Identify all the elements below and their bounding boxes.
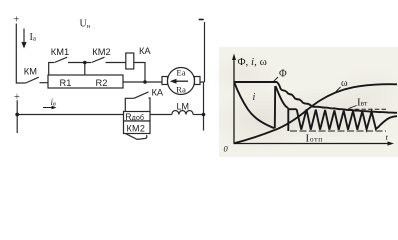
svg-text:КА: КА xyxy=(139,46,151,56)
curve ω speed xyxy=(234,84,397,143)
current arrow Ia xyxy=(23,29,25,43)
node: junction dot armature wire / KA xyxy=(143,80,147,84)
wire: LM to right rail xyxy=(193,114,203,116)
dashed line Iотп level xyxy=(290,130,386,132)
svg-text:КМ2: КМ2 xyxy=(127,124,146,134)
svg-text:Eа: Eа xyxy=(176,68,185,78)
svg-text:+: + xyxy=(13,15,19,26)
svg-text:Iа: Iа xyxy=(30,32,37,43)
svg-text:i: i xyxy=(253,92,256,103)
resistor Rдоб box xyxy=(124,112,151,122)
contact KM xyxy=(26,77,39,83)
svg-text:КМ2: КМ2 xyxy=(92,47,110,57)
wire: KM2 to KA coil xyxy=(106,62,126,64)
wire: left bypass riser xyxy=(49,63,55,76)
y axis arrowhead xyxy=(232,54,236,61)
wire: KA coil to armature node xyxy=(134,63,145,83)
leader line Iвт xyxy=(349,106,357,109)
node: junction dot right rail / field xyxy=(202,113,206,117)
contact KA shunting Rдоб xyxy=(125,98,134,111)
wire: armature wire resistor to motor xyxy=(123,81,162,83)
time-delay hook below KM2 box xyxy=(126,134,147,140)
svg-text:iв: iв xyxy=(51,97,57,108)
curve i: second decay xyxy=(276,86,289,108)
wire: KM1 to junction xyxy=(68,62,91,64)
relay coil KA xyxy=(126,53,134,69)
svg-text:Rа: Rа xyxy=(176,85,186,95)
curve i: relay vibration sawtooth xyxy=(287,108,289,131)
contact KM2 xyxy=(92,57,105,62)
resistor R1 R2 box xyxy=(48,75,123,88)
EMF arrow inside motor xyxy=(174,80,188,82)
wire: motor to right rail xyxy=(200,81,205,83)
svg-text:Φ, i, ω: Φ, i, ω xyxy=(238,56,267,68)
wire: KM to resistor box xyxy=(40,82,49,84)
wire: field circuit to Rdob xyxy=(17,114,123,116)
contact KM1 xyxy=(55,57,68,62)
svg-text:Rдоб: Rдоб xyxy=(125,112,144,122)
minus terminal right rail xyxy=(199,19,204,21)
svg-text:Uн: Uн xyxy=(80,19,91,31)
field current arrow iв xyxy=(43,107,53,109)
leader line ω xyxy=(336,87,341,92)
svg-text:R2: R2 xyxy=(96,78,108,88)
leader line Φ xyxy=(274,77,279,82)
x axis arrowhead xyxy=(388,141,395,145)
wire: Rdob to LM xyxy=(150,114,172,116)
wire: right supply rail xyxy=(204,22,206,82)
curve i: jump when KM1 closes xyxy=(274,86,276,128)
motor armature circle M xyxy=(168,68,195,95)
svg-text:LM: LM xyxy=(177,102,190,112)
svg-text:ω: ω xyxy=(341,78,348,89)
node: junction dot KM1-KM2 xyxy=(83,61,87,65)
svg-text:КМ: КМ xyxy=(24,66,37,76)
node: junction dot field supply xyxy=(15,113,19,117)
dashed line Iвт level xyxy=(348,108,388,110)
inductor LM field winding xyxy=(172,110,193,114)
coil KM2 box xyxy=(124,121,151,134)
curve i armature current: first decay xyxy=(235,83,275,128)
motor brush right xyxy=(195,77,201,85)
svg-text:Φ: Φ xyxy=(279,69,287,80)
wire: left supply rail vertical xyxy=(16,24,25,84)
wire: mid riser junction to R1/R2 tap xyxy=(84,63,86,76)
wire: right rail lower segment xyxy=(203,82,205,131)
motor brush left xyxy=(162,77,168,85)
y axis xyxy=(233,57,235,144)
curve Φ flux xyxy=(234,82,397,113)
svg-text:КА: КА xyxy=(152,87,164,97)
x axis xyxy=(234,143,390,145)
svg-text:КМ1: КМ1 xyxy=(51,47,69,57)
svg-text:Iотп: Iотп xyxy=(306,133,323,145)
graph panel background xyxy=(219,47,398,157)
svg-text:Iвт: Iвт xyxy=(357,96,368,108)
svg-text:R1: R1 xyxy=(60,78,72,88)
svg-text:+: + xyxy=(14,92,20,103)
wire: field supply stub xyxy=(16,100,18,133)
